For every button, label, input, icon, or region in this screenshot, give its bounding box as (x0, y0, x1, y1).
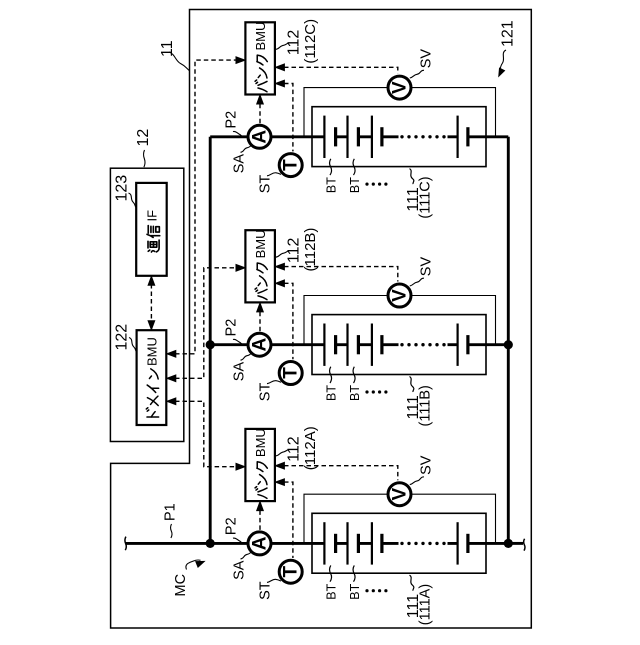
leader squiggle for 122 (129, 338, 136, 352)
battery output wire to bus (bank C) (468, 135, 508, 138)
svg-text:BT: BT (325, 583, 339, 599)
leader squiggle 112 (bank C) (275, 43, 289, 49)
leader squiggle for P1 (171, 524, 172, 538)
svg-text:123: 123 (114, 175, 131, 202)
svg-text:T: T (281, 367, 302, 379)
battery bank box 111C (312, 107, 486, 167)
enclosure box 11 (battery pack outline, notched) (111, 10, 532, 629)
leader squiggle+arrow for 121 (500, 50, 506, 73)
svg-text:P1: P1 (163, 503, 179, 521)
domain BMU box 122 (137, 330, 167, 425)
svg-text:SA: SA (232, 362, 248, 382)
text domain BMU (rotated) (144, 337, 159, 417)
svg-text:BMU: BMU (253, 428, 268, 457)
break tick right end of MC (524, 539, 525, 551)
ellipsis dots in battery chain (bank B) (400, 343, 403, 346)
svg-text:BMU: BMU (253, 22, 268, 51)
leader squiggle 112 (bank B) (275, 251, 289, 257)
dashed ST sense link to BMU (bank B) (284, 283, 293, 359)
battery output wire to bus (bank A) (468, 542, 508, 545)
battery inter-cell wires (bank A) (336, 542, 458, 545)
svg-text:121: 121 (500, 20, 517, 47)
battery cell BT1 short plate (bank B) (334, 335, 337, 354)
svg-text:V: V (389, 81, 410, 94)
squiggle BT1 (bank A) (330, 565, 332, 581)
voltmeter circle SV (bank A) (388, 483, 411, 506)
ammeter circle SA (bank C) (248, 125, 271, 148)
svg-text:SV: SV (419, 257, 435, 277)
battery cell BT4 long plate (bank A) (457, 522, 459, 564)
voltage sense loop wiring (bank C) (304, 88, 496, 137)
dashed SV sense link to BMU (bank B) (284, 267, 398, 282)
battery bank box 111A (312, 513, 486, 573)
svg-text:BT: BT (348, 583, 362, 599)
text bank BMU (rotated, bank A) (253, 428, 268, 498)
dashed trunk domain BMU <-> bank BMU 112A (175, 401, 237, 466)
ellipsis dots in battery chain (bank A) (400, 542, 403, 545)
junction dot bus/bank B (504, 340, 513, 349)
dashed SA link A->BMU (bank A) (259, 510, 261, 530)
voltmeter circle SV (bank B) (388, 284, 411, 307)
svg-text:P2: P2 (224, 517, 240, 535)
ammeter circle SA (bank B) (248, 333, 271, 356)
battery bank box 111B (312, 315, 486, 375)
dashed comm link 123<->122 (150, 284, 152, 323)
battery inter-cell wires (bank C) (336, 135, 458, 138)
svg-text:P2: P2 (224, 111, 240, 129)
svg-text:BT: BT (348, 385, 362, 401)
thermometer circle ST (bank B) (279, 362, 302, 385)
dashed trunk domain BMU <-> bank BMU 112B (175, 268, 237, 379)
leader squiggle for 123 (129, 193, 137, 207)
svg-text:(112B): (112B) (302, 228, 319, 272)
main line MC left segment with break tick (126, 542, 211, 545)
svg-text:112: 112 (286, 237, 303, 263)
leader squiggle for 11 (169, 52, 189, 71)
ammeter circle SA (bank A) (248, 532, 271, 555)
svg-text:(112C): (112C) (302, 19, 319, 64)
svg-text:A: A (249, 130, 270, 144)
battery cell BT4 long plate (bank C) (457, 116, 459, 158)
BT ellipsis dots (bank A) (365, 589, 368, 592)
text bank BMU (rotated, bank B) (253, 230, 268, 300)
dashed ST sense link to BMU (bank A) (284, 482, 293, 558)
battery inter-cell wires (bank B) (336, 343, 458, 346)
leader squiggle for 12 (144, 150, 145, 167)
leader arrow for MC (186, 560, 201, 570)
dashed trunk domain BMU <-> bank BMU 112C (175, 60, 237, 354)
svg-text:T: T (281, 159, 302, 171)
squiggle BT1 (bank B) (330, 367, 332, 383)
BT ellipsis dots (bank C) (365, 183, 368, 186)
main line MC right segment with break tick (508, 542, 523, 545)
leader squiggle SA (bank C) (241, 146, 251, 152)
svg-text:SV: SV (419, 49, 435, 69)
leader squiggle SA (bank A) (241, 553, 251, 559)
wire P2 row bank A (210, 542, 324, 545)
communication IF box 123 (tsuushin IF) (136, 183, 167, 276)
battery cell BT4 long plate (bank B) (457, 324, 459, 366)
battery cell BT3 long plate (bank B) (371, 324, 373, 366)
battery cell BT1 long plate (bank A) (323, 522, 325, 564)
battery cell BT2 long plate (bank C) (346, 116, 348, 158)
squiggle 111 (bank A) (410, 575, 414, 591)
svg-text:SV: SV (419, 455, 435, 475)
battery cell BT1 short plate (bank C) (334, 127, 337, 146)
leader squiggle ST (bank B) (267, 381, 281, 384)
squiggle BT2 (bank B) (353, 367, 355, 383)
battery cell BT2 long plate (bank A) (346, 522, 348, 564)
svg-text:(111C): (111C) (418, 176, 434, 218)
svg-text:112: 112 (286, 436, 303, 462)
svg-text:BT: BT (348, 177, 362, 193)
text bank BMU (rotated, bank C) (253, 22, 268, 92)
svg-text:V: V (389, 289, 410, 302)
leader squiggle P2 (bank B) (233, 339, 242, 344)
leader squiggle SA (bank B) (241, 354, 251, 360)
dashed SV sense link to BMU (bank A) (284, 466, 398, 481)
battery cell BT1 long plate (bank B) (323, 324, 325, 366)
voltage sense loop wiring (bank A) (304, 494, 496, 543)
leader squiggle SV (bank C) (410, 70, 424, 78)
leader squiggle SV (bank B) (410, 278, 424, 286)
svg-text:A: A (249, 338, 270, 352)
svg-text:ST: ST (258, 383, 274, 402)
dashed SA link A->BMU (bank B) (259, 311, 261, 331)
svg-text:V: V (389, 488, 410, 501)
management unit box 12 (110, 168, 183, 441)
svg-text:IF: IF (144, 210, 159, 222)
battery cell BT3 short plate (bank C) (380, 127, 383, 146)
text tsuushin IF (rotated) (144, 210, 159, 252)
battery cell BT3 long plate (bank A) (371, 522, 373, 564)
squiggle BT2 (bank A) (353, 565, 355, 581)
battery cell BT4 short plate (bank B) (466, 335, 469, 354)
svg-text:11: 11 (159, 40, 176, 57)
right bus bar (return conductor) (507, 137, 510, 544)
battery output wire to bus (bank B) (468, 343, 508, 346)
bank BMU box 112A (245, 429, 275, 501)
voltmeter circle SV (bank C) (388, 76, 411, 99)
svg-text:SA: SA (232, 154, 248, 174)
squiggle BT2 (bank C) (353, 159, 355, 175)
wire P2 row bank C (210, 135, 324, 138)
svg-text:T: T (281, 566, 302, 578)
svg-text:122: 122 (114, 324, 131, 351)
svg-text:P2: P2 (224, 319, 240, 337)
dashed ST sense link to BMU (bank C) (284, 84, 293, 152)
battery cell BT3 short plate (bank A) (380, 534, 383, 553)
leader squiggle ST (bank C) (267, 173, 281, 176)
wire P2 row bank B (210, 343, 324, 346)
battery cell BT4 short plate (bank C) (466, 127, 469, 146)
svg-text:(111B): (111B) (418, 385, 434, 426)
svg-text:MC: MC (173, 574, 189, 597)
break tick left end of MC (125, 537, 126, 551)
dashed SV sense link to BMU (bank C) (284, 67, 398, 73)
battery cell BT1 long plate (bank C) (323, 116, 325, 158)
voltage sense loop wiring (bank B) (304, 296, 496, 345)
leader squiggle 112 (bank A) (275, 450, 289, 456)
svg-text:A: A (249, 536, 270, 550)
thermometer circle ST (bank A) (279, 560, 302, 583)
svg-text:BT: BT (325, 177, 339, 193)
thermometer circle ST (bank C) (279, 154, 302, 177)
svg-text:112: 112 (286, 30, 303, 56)
junction dot P1/bank A (206, 539, 215, 548)
svg-text:BMU: BMU (144, 337, 159, 366)
dashed SA link A->BMU (bank C) (259, 103, 261, 123)
leader squiggle P2 (bank A) (233, 538, 242, 543)
svg-text:BMU: BMU (253, 230, 268, 259)
svg-text:ST: ST (258, 581, 274, 600)
main line P1 (vertical trunk) (209, 137, 212, 544)
squiggle 111 (bank B) (410, 377, 414, 393)
battery cell BT1 short plate (bank A) (334, 534, 337, 553)
svg-text:SA: SA (232, 560, 248, 580)
bank BMU box 112C (245, 22, 275, 94)
ellipsis dots in battery chain (bank C) (400, 135, 403, 138)
squiggle BT1 (bank C) (330, 159, 332, 175)
battery cell BT2 short plate (bank A) (357, 534, 360, 553)
svg-text:12: 12 (135, 129, 152, 147)
svg-text:(111A): (111A) (418, 584, 434, 625)
junction dot P1/bank B (206, 340, 215, 349)
junction dot bus/bank A (504, 539, 513, 548)
battery cell BT2 long plate (bank B) (346, 324, 348, 366)
leader squiggle SV (bank A) (410, 477, 424, 485)
svg-text:ST: ST (258, 175, 274, 194)
battery cell BT2 short plate (bank B) (357, 335, 360, 354)
svg-text:(112A): (112A) (302, 426, 319, 470)
battery cell BT2 short plate (bank C) (357, 127, 360, 146)
battery cell BT3 long plate (bank C) (371, 116, 373, 158)
battery cell BT3 short plate (bank B) (380, 335, 383, 354)
leader squiggle ST (bank A) (267, 579, 281, 582)
leader squiggle P2 (bank C) (233, 131, 242, 136)
bank BMU box 112B (245, 230, 275, 302)
squiggle 111 (bank C) (410, 169, 414, 185)
BT ellipsis dots (bank B) (365, 390, 368, 393)
battery cell BT4 short plate (bank A) (466, 534, 469, 553)
svg-text:BT: BT (325, 385, 339, 401)
